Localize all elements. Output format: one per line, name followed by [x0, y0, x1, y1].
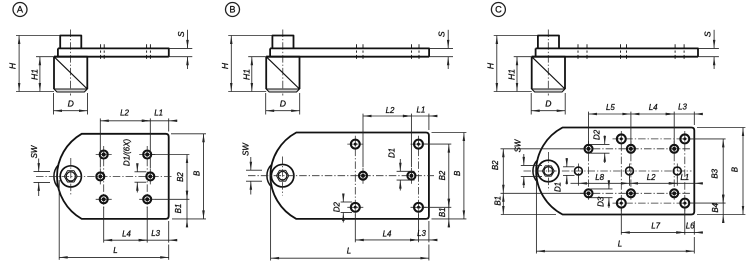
svg-text:S: S	[176, 31, 186, 37]
svg-text:C: C	[495, 4, 502, 14]
svg-text:B: B	[229, 4, 235, 14]
svg-text:H1: H1	[241, 69, 251, 80]
svg-text:B4: B4	[711, 202, 720, 212]
svg-text:D: D	[280, 99, 286, 109]
svg-text:H: H	[7, 62, 17, 69]
svg-text:L4: L4	[122, 229, 131, 238]
svg-text:B3: B3	[711, 168, 720, 178]
svg-text:B1: B1	[493, 196, 502, 206]
svg-text:B2: B2	[438, 170, 447, 180]
svg-text:D3: D3	[597, 196, 606, 207]
svg-text:B2: B2	[491, 160, 500, 170]
svg-text:L2: L2	[120, 108, 129, 117]
svg-text:S: S	[702, 31, 712, 37]
svg-text:B1: B1	[174, 204, 183, 214]
svg-text:D2: D2	[332, 202, 341, 213]
svg-text:L4: L4	[649, 103, 658, 112]
svg-text:H: H	[220, 62, 230, 69]
svg-text:A: A	[17, 4, 24, 14]
svg-text:B2: B2	[176, 172, 185, 182]
svg-text:B: B	[192, 171, 201, 176]
svg-text:L3: L3	[678, 103, 687, 112]
svg-text:SW: SW	[514, 138, 523, 152]
svg-text:D1/(6X): D1/(6X)	[122, 139, 131, 167]
svg-text:L3: L3	[151, 229, 160, 238]
svg-text:SW: SW	[242, 142, 251, 156]
svg-text:L2: L2	[647, 173, 656, 182]
svg-text:D2: D2	[593, 129, 602, 140]
svg-text:L1: L1	[154, 108, 163, 117]
svg-text:L1: L1	[417, 106, 426, 115]
svg-text:L5: L5	[606, 103, 615, 112]
svg-text:B1: B1	[438, 207, 447, 217]
svg-text:L1: L1	[680, 173, 689, 182]
svg-text:B: B	[731, 167, 740, 172]
svg-text:L7: L7	[651, 222, 660, 231]
svg-text:D: D	[545, 99, 551, 109]
svg-text:S: S	[436, 31, 446, 37]
svg-text:L6: L6	[686, 222, 695, 231]
svg-text:H: H	[485, 62, 495, 69]
svg-text:B: B	[453, 171, 462, 176]
svg-text:L: L	[347, 246, 351, 255]
svg-text:L8: L8	[595, 173, 604, 182]
svg-text:SW: SW	[30, 144, 39, 158]
svg-text:L3: L3	[417, 229, 426, 238]
svg-text:L2: L2	[386, 106, 395, 115]
svg-text:L4: L4	[383, 229, 392, 238]
svg-text:H1: H1	[507, 69, 517, 80]
svg-text:D1: D1	[553, 182, 562, 192]
svg-text:H1: H1	[30, 69, 40, 80]
svg-text:L: L	[113, 246, 117, 255]
svg-text:D1: D1	[387, 148, 396, 158]
svg-text:D: D	[68, 99, 74, 109]
svg-text:L: L	[618, 239, 622, 248]
